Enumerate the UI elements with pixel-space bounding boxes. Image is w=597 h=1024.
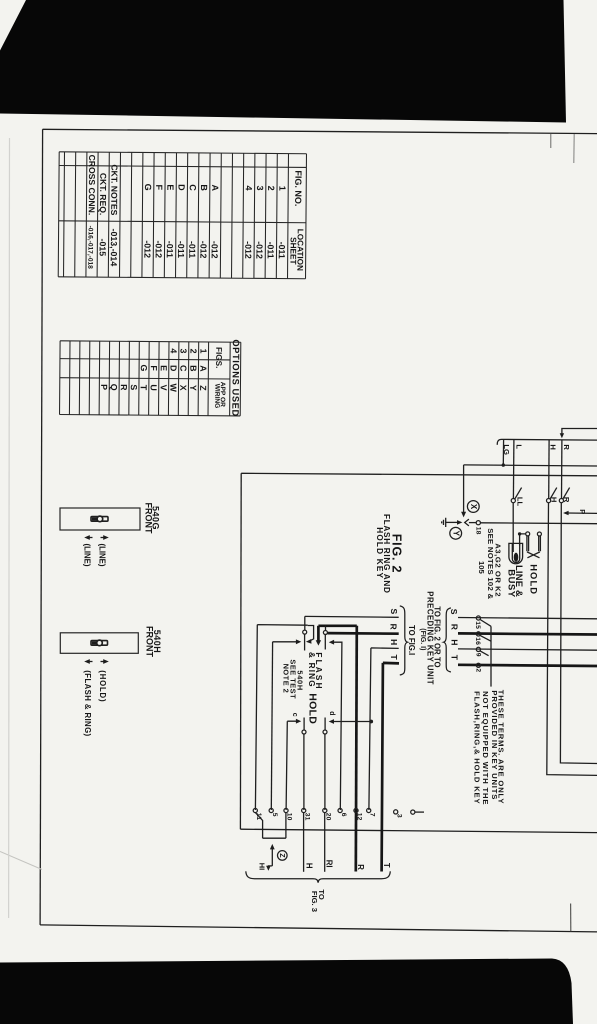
slash 9: [480, 651, 489, 656]
terminal 15: [476, 616, 480, 620]
junction dot lamp: [518, 532, 521, 535]
svg-text:(FIG. I): (FIG. I): [419, 628, 426, 650]
svg-text:CROSS CONN.: CROSS CONN.: [87, 155, 97, 216]
lamp lead left: [512, 503, 514, 553]
contact spring S: [304, 616, 306, 650]
scan black band bottom: [0, 959, 573, 1024]
wire S right: [458, 618, 597, 619]
key 540H front view: [60, 626, 162, 737]
svg-text:6: 6: [340, 813, 347, 817]
svg-text:S: S: [389, 609, 399, 615]
contact R slash: [563, 488, 570, 500]
svg-text:5: 5: [271, 813, 278, 817]
svg-text:LG: LG: [502, 444, 511, 455]
svg-text:H: H: [548, 444, 557, 449]
svg-text:FRONT: FRONT: [145, 626, 155, 657]
svg-text:-012: -012: [154, 240, 164, 258]
svg-text:31: 31: [303, 813, 310, 821]
lamp lead right: [520, 534, 526, 546]
svg-text:C: C: [178, 365, 188, 372]
right group brace: [444, 608, 451, 672]
contact LL slash: [515, 488, 522, 500]
contact c circle: [302, 730, 306, 734]
svg-text:NOTE 2: NOTE 2: [281, 664, 290, 694]
key 540H outline: [60, 633, 138, 654]
svg-text:(HOLD): (HOLD): [98, 670, 107, 702]
arrow up (LINE): [98, 535, 109, 567]
fixed contact S bracket: [308, 626, 314, 642]
svg-text:P: P: [99, 384, 109, 390]
node Y flag: [450, 527, 462, 539]
wire 18 to right: [480, 522, 597, 525]
figure box bottom edge: [240, 829, 597, 832]
svg-text:-015: -015: [98, 239, 108, 257]
contact d circle: [323, 730, 327, 734]
svg-text:(LINE): (LINE): [83, 544, 92, 567]
svg-text:3: 3: [179, 348, 189, 353]
bracket over key stubs: [497, 439, 597, 444]
svg-text:T: T: [389, 655, 399, 661]
paper left edge shadow: [8, 138, 11, 918]
svg-text:-012: -012: [210, 241, 220, 259]
svg-text:R: R: [562, 497, 571, 503]
svg-text:(FLASH & RING): (FLASH & RING): [83, 670, 92, 736]
arrow down HI: [268, 865, 272, 868]
svg-text:HOLD KEY: HOLD KEY: [375, 527, 384, 579]
joining wire below: [263, 837, 286, 839]
terminal 18: [476, 521, 480, 525]
ground symbol: [442, 518, 459, 527]
bottom terminals: [246, 808, 424, 912]
table: OPTIONS USED: [60, 338, 241, 417]
svg-text:T: T: [382, 863, 391, 868]
frame tick mark: [550, 134, 552, 148]
svg-text:S: S: [449, 609, 459, 615]
svg-text:P: P: [578, 509, 587, 514]
terminal 10: [284, 808, 288, 812]
wire hold spring stub: [327, 632, 329, 634]
wire from terminal 5: [271, 642, 272, 810]
svg-text:BUSY: BUSY: [507, 569, 518, 598]
svg-text:FIG. 3: FIG. 3: [310, 891, 319, 912]
svg-text:16: 16: [474, 637, 481, 645]
junction dot LG: [502, 463, 505, 466]
svg-text:PRECEDING KEY UNIT: PRECEDING KEY UNIT: [426, 591, 435, 685]
terminal 11: [253, 808, 257, 812]
terminal 16: [476, 632, 480, 636]
wire 11 drop: [255, 812, 262, 838]
svg-text:7: 7: [368, 813, 375, 817]
slash 16: [480, 635, 491, 641]
svg-text:F: F: [149, 365, 159, 371]
figure 2 circuit: [240, 429, 597, 913]
svg-text:E: E: [165, 184, 175, 190]
svg-text:Z: Z: [198, 385, 208, 391]
svg-text:3: 3: [255, 186, 265, 191]
svg-text:R: R: [356, 864, 365, 870]
actuate arrow from 5: [273, 641, 298, 643]
svg-text:T: T: [450, 655, 460, 661]
svg-text:Y: Y: [188, 385, 198, 391]
arrowhead down to bracket: [560, 433, 564, 438]
terminal 20: [323, 808, 327, 812]
wire R vertical thick to 12: [356, 626, 357, 872]
terminal 2: [476, 663, 480, 667]
svg-text:HI: HI: [258, 863, 267, 870]
svg-text:FLASH,RING,& HOLD KEY: FLASH,RING,& HOLD KEY: [473, 691, 482, 804]
svg-text:B: B: [188, 365, 198, 371]
svg-text:C: C: [188, 184, 198, 191]
svg-text:D: D: [168, 365, 178, 371]
svg-text:c: c: [291, 713, 298, 717]
svg-text:2: 2: [266, 186, 276, 191]
contact H slash: [550, 488, 557, 500]
arrow up (HOLD): [98, 659, 109, 702]
lamp terminal circle 1: [526, 532, 530, 536]
svg-text:H: H: [304, 863, 313, 869]
left group brace: [400, 606, 408, 675]
wire S left: [305, 615, 399, 618]
svg-text:R: R: [450, 624, 460, 631]
actuate arrow from 6: [333, 642, 342, 810]
arrowhead down: [461, 512, 466, 518]
contact d spring: [324, 718, 326, 811]
node Y junction: [442, 465, 597, 539]
hold contact spring: [324, 625, 326, 649]
svg-text:d: d: [328, 711, 335, 715]
scan black band top: [0, 0, 566, 123]
svg-text:4: 4: [169, 348, 179, 353]
svg-text:CKT. NOTES: CKT. NOTES: [109, 164, 119, 215]
wire T left thick: [382, 663, 399, 872]
wire H right: [458, 649, 597, 650]
actuate arrow d from H wire: [333, 721, 372, 723]
svg-text:SHEET: SHEET: [288, 237, 297, 264]
key 540G outline: [60, 508, 140, 530]
jack chevron: [465, 519, 469, 526]
svg-text:Q: Q: [109, 384, 119, 391]
figure box left edge: [239, 473, 242, 829]
svg-text:FIGS.: FIGS.: [214, 347, 223, 368]
svg-text:-011: -011: [176, 241, 186, 258]
svg-text:-011: -011: [266, 242, 276, 259]
long wire R vertical: [560, 503, 597, 764]
key 540G handle symbol: [91, 516, 108, 522]
terminal 12: [354, 808, 358, 812]
paper corner edge bottom-left: [0, 852, 42, 870]
lamp terminal clip 1: [527, 536, 529, 552]
lamp filament: [514, 553, 519, 562]
lamp terminal clip 2: [539, 536, 541, 552]
svg-text:2: 2: [474, 668, 481, 672]
svg-text:R: R: [119, 384, 129, 391]
drawing frame border: [40, 129, 597, 932]
collector wire to note: [490, 626, 492, 686]
lamp assembly: [477, 503, 541, 600]
svg-text:-011: -011: [277, 242, 287, 259]
lamp terminal circle 2: [537, 532, 541, 536]
svg-text:A: A: [210, 184, 220, 191]
wire down from 465: [463, 465, 465, 512]
svg-text:CKT. REQ.: CKT. REQ.: [98, 173, 108, 216]
stub RI below box: [324, 812, 326, 871]
lamp socket outline: [509, 543, 523, 563]
terminal 7: [367, 808, 371, 812]
svg-text:-012: -012: [198, 241, 208, 259]
terminal group right: [400, 591, 597, 686]
svg-text:H: H: [389, 639, 399, 645]
svg-text:(LINE): (LINE): [98, 544, 107, 567]
slash 15: [480, 620, 491, 627]
svg-text:-011: -011: [165, 241, 175, 258]
svg-text:OPTIONS USED: OPTIONS USED: [230, 339, 241, 417]
svg-text:105: 105: [477, 561, 486, 575]
wire R thick drop arrow: [317, 626, 320, 641]
svg-text:W: W: [168, 383, 178, 392]
svg-text:1: 1: [277, 186, 287, 191]
svg-text:T: T: [139, 385, 149, 391]
long wire H vertical: [547, 503, 597, 776]
arrow up Z: [271, 848, 273, 866]
key 540H handle symbol: [91, 640, 108, 646]
wire T right thick: [458, 665, 597, 666]
wire R left thick: [328, 632, 399, 635]
terminal unnumbered with stub: [411, 810, 415, 814]
svg-text:G: G: [139, 364, 149, 371]
svg-text:-012: -012: [243, 241, 253, 259]
svg-text:B: B: [199, 184, 209, 191]
svg-text:9: 9: [474, 653, 481, 657]
wire 10 drop: [285, 812, 287, 838]
contact H circle: [547, 499, 551, 503]
notes text: [473, 690, 506, 805]
svg-text:10: 10: [286, 813, 293, 821]
contact S circle: [303, 630, 307, 634]
page fold edge bottom: [570, 904, 572, 932]
node Z flag: [278, 851, 288, 861]
wire LG stub: [502, 439, 504, 465]
stub H below box: [303, 812, 305, 871]
svg-text:S: S: [129, 384, 139, 390]
terminal 9: [476, 647, 480, 651]
contact LL circle: [511, 499, 515, 503]
svg-text:WIRING: WIRING: [213, 384, 220, 409]
wire R contact bar thick: [318, 624, 356, 627]
arrow down (FLASH & RING): [83, 659, 92, 736]
svg-text:X: X: [469, 504, 478, 510]
wire 465 horizontal: [464, 465, 597, 466]
svg-text:2: 2: [189, 349, 199, 354]
node X flag: [467, 501, 479, 513]
wire to terminal 18: [469, 522, 477, 524]
svg-text:H: H: [450, 639, 460, 645]
svg-text:U: U: [149, 384, 159, 390]
svg-text:3: 3: [396, 814, 403, 818]
contact hold circle: [323, 631, 327, 635]
svg-text:18: 18: [475, 527, 482, 535]
svg-text:G: G: [143, 184, 153, 191]
wire L stub to lamp contact: [512, 439, 515, 498]
svg-text:12: 12: [356, 813, 363, 821]
brace TO FIG 3: [246, 871, 390, 882]
svg-text:E: E: [159, 365, 169, 371]
svg-text:20: 20: [325, 813, 332, 821]
arrowhead right at junction: [457, 520, 462, 525]
actuate arrow c from 10: [286, 721, 298, 810]
svg-text:& RING: & RING: [307, 652, 316, 688]
key unit internals: [255, 609, 399, 872]
wire upper right entering: [562, 429, 597, 434]
svg-text:PROVIDED IN KEY UNITS: PROVIDED IN KEY UNITS: [490, 690, 499, 800]
svg-text:-011: -011: [187, 241, 197, 258]
svg-text:1: 1: [198, 349, 208, 354]
page fold edge top: [573, 134, 575, 163]
svg-text:TO FIG.I: TO FIG.I: [407, 625, 416, 655]
svg-text:15: 15: [474, 621, 481, 629]
svg-text:R: R: [562, 444, 571, 450]
svg-text:4: 4: [244, 185, 254, 190]
contact c spring: [303, 718, 305, 811]
terminal 31: [302, 808, 306, 812]
designation X strap: [527, 552, 540, 558]
terminal 3: [394, 810, 398, 814]
svg-text:-012: -012: [142, 240, 152, 258]
svg-text:HOLD: HOLD: [528, 564, 539, 595]
terminal 6: [338, 808, 342, 812]
svg-text:HOLD: HOLD: [307, 693, 319, 724]
svg-text:-016,-017,-018: -016,-017,-018: [86, 226, 93, 270]
svg-text:D: D: [176, 184, 186, 191]
svg-text:H: H: [550, 497, 559, 502]
svg-text:SEE NOTES 102 &: SEE NOTES 102 &: [486, 528, 495, 599]
svg-text:Y: Y: [451, 531, 460, 537]
arrow down (LINE): [83, 535, 93, 567]
svg-text:L: L: [514, 444, 523, 449]
figure box top edge / wire: [241, 473, 597, 476]
terminal 5: [269, 808, 273, 812]
wire R right thick: [458, 633, 597, 634]
wire from terminal 11: [255, 625, 307, 810]
svg-text:-013,-014: -013,-014: [109, 229, 119, 267]
svg-text:A: A: [198, 365, 208, 372]
svg-text:F: F: [154, 184, 164, 190]
svg-text:RI: RI: [324, 860, 333, 868]
svg-text:V: V: [159, 385, 169, 391]
table: FIG NO / LOCATION SHEET: [58, 152, 306, 279]
svg-text:R: R: [389, 624, 399, 631]
svg-text:LL: LL: [515, 497, 524, 507]
option P arrow: [563, 509, 597, 515]
wire H stub: [548, 440, 550, 499]
wire H left: [369, 648, 399, 810]
key 540G front view: [60, 503, 161, 567]
svg-text:X: X: [178, 385, 188, 391]
contact R circle: [559, 499, 563, 503]
svg-text:FRONT: FRONT: [143, 503, 153, 534]
svg-text:FIG. NO.: FIG. NO.: [293, 170, 303, 206]
svg-text:Z: Z: [278, 853, 285, 858]
lamp capsule inner: [512, 544, 519, 563]
svg-text:-012: -012: [254, 241, 264, 259]
wire R stub: [561, 440, 563, 499]
